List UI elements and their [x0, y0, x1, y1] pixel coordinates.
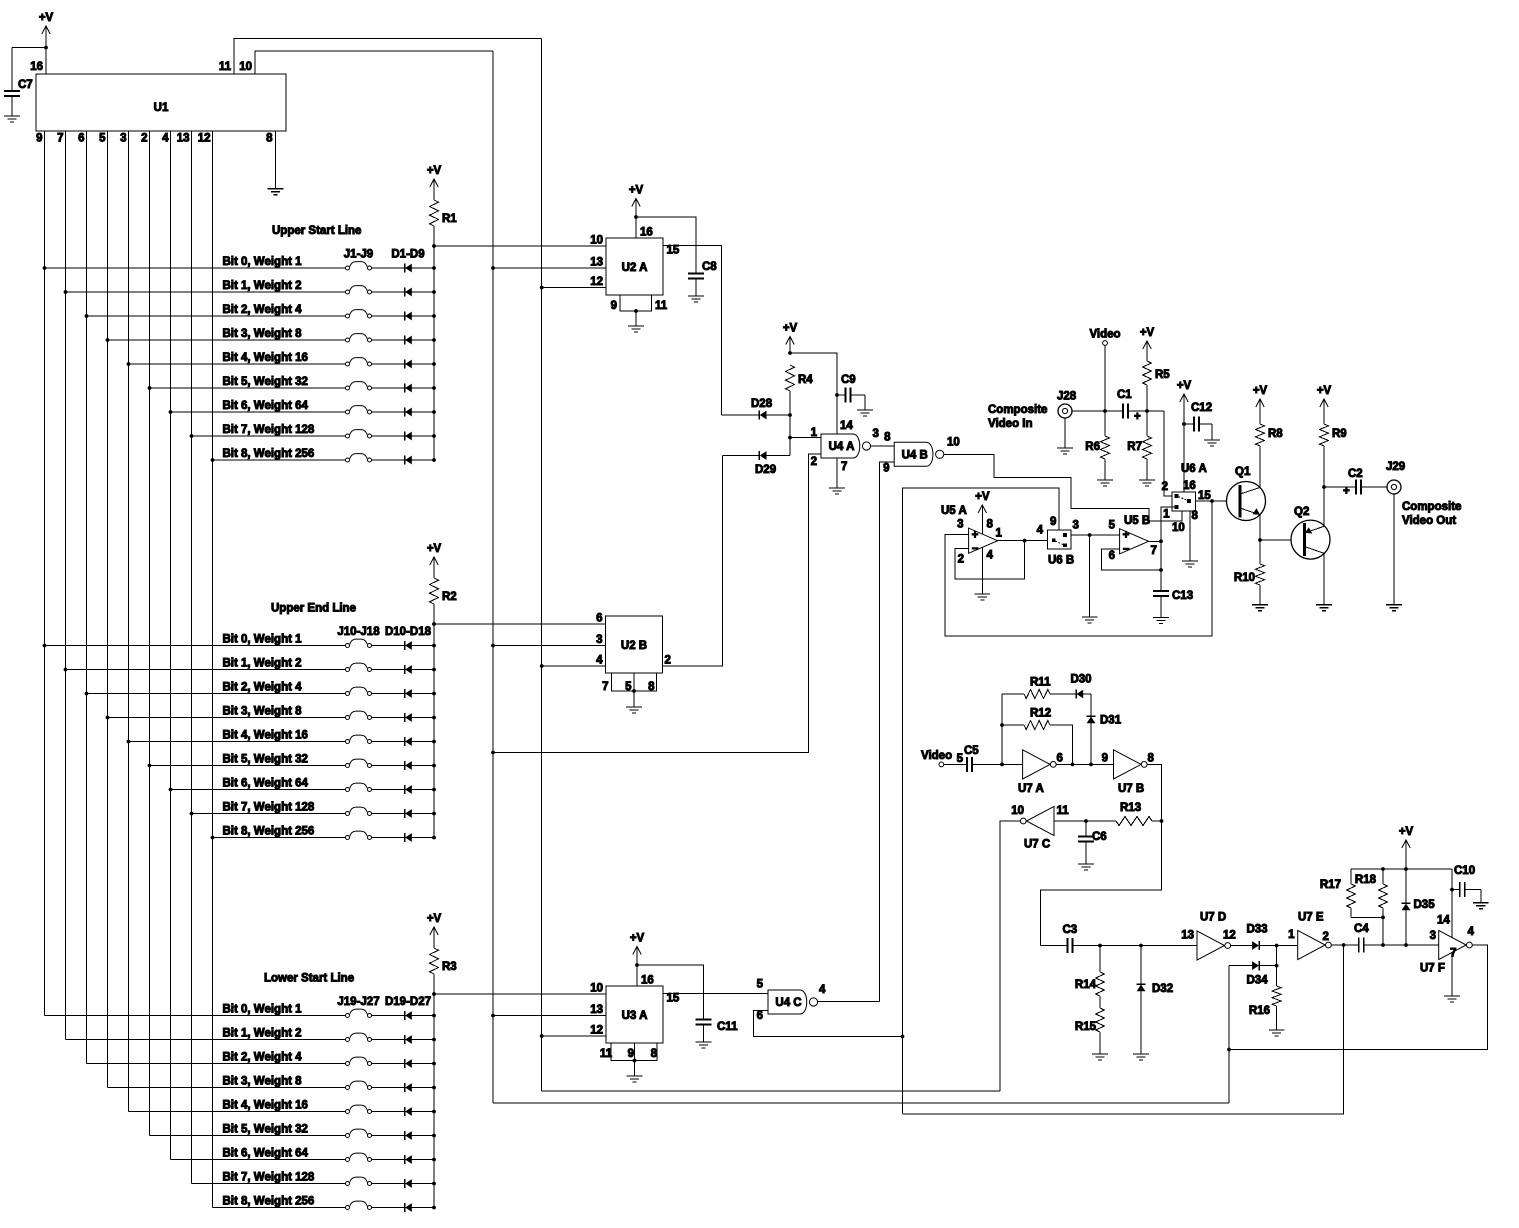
wire row bit 2 group 1: [87, 315, 346, 317]
svg-text:9: 9: [883, 463, 889, 475]
diode D17: [404, 809, 406, 818]
junction row bit 8 on bus (group 3): [432, 1206, 436, 1210]
ground U4A: [829, 488, 845, 494]
wire row bit 0 group 1: [45, 267, 346, 269]
svg-text:U3 A: U3 A: [622, 1010, 648, 1022]
svg-text:–: –: [972, 543, 979, 555]
wire bus B10 bottom run to D34 node: [493, 1102, 1229, 1104]
capacitor C13: [1153, 590, 1169, 592]
svg-text:Composite: Composite: [1402, 501, 1461, 513]
svg-text:+: +: [1343, 486, 1350, 498]
jumper J6: [350, 382, 368, 387]
junction row bit 0 on bus (group 3): [432, 1014, 436, 1018]
capacitor C9: [837, 394, 846, 396]
wire C1 to R5/R7 node: [1128, 410, 1164, 412]
wire U5A pin4 to ground: [981, 547, 983, 594]
wire R1 to junction: [433, 226, 435, 246]
svg-text:6: 6: [757, 1010, 763, 1022]
svg-text:D35: D35: [1414, 899, 1436, 911]
wire J29 ground: [1393, 494, 1395, 605]
wire U5A feedback loop: [955, 541, 1025, 579]
svg-text:Composite: Composite: [988, 404, 1047, 416]
svg-text:U5 A: U5 A: [941, 505, 967, 517]
diode D19: [404, 1011, 406, 1020]
jumper J15: [350, 759, 368, 764]
svg-text:7: 7: [841, 461, 847, 473]
ground C7: [4, 116, 20, 122]
diode D1: [404, 263, 406, 272]
wire C3 to U7D input: [1073, 945, 1198, 947]
jumper J17: [350, 807, 368, 812]
power +V R8: [1253, 385, 1268, 407]
svg-text:Video: Video: [921, 750, 952, 762]
bus R1 diode summing line: [433, 246, 435, 460]
wire row bit 4 group 1: [129, 363, 346, 365]
svg-text:12: 12: [590, 1025, 603, 1037]
svg-text:+V: +V: [1253, 385, 1268, 397]
diode D14: [404, 737, 406, 746]
power +V R9: [1317, 385, 1332, 407]
junction R1 bus top: [432, 244, 436, 248]
junction R9/Q2/C2: [1322, 485, 1326, 489]
junction pin 2 bus / upper end row: [148, 764, 152, 768]
junction pin15/feedback: [1210, 499, 1214, 503]
wire Q2 collector ground: [1323, 553, 1325, 604]
svg-text:Bit 7, Weight 128: Bit 7, Weight 128: [223, 1172, 315, 1184]
junction bus B11 / U2B pin4: [540, 664, 544, 668]
wire row bit 3 group 2: [108, 717, 346, 719]
power +V for R3: [427, 913, 442, 935]
svg-text:Bit 6, Weight 64: Bit 6, Weight 64: [223, 778, 309, 790]
wire row bit 1 group 1: [66, 291, 346, 293]
diode D30: [1075, 689, 1077, 698]
wire D34 to R16 node: [1259, 965, 1276, 967]
diode D31: [1086, 715, 1095, 717]
junction U7E output / bottom run: [1342, 943, 1346, 947]
jumper J9: [350, 454, 368, 459]
power +V C12: [1177, 380, 1192, 402]
ground R16: [1269, 1030, 1285, 1036]
NAND gate U4A: [821, 434, 860, 458]
wire bus from U1 pin 9: [44, 131, 46, 1016]
svg-text:10: 10: [1172, 522, 1185, 534]
wire row bit 5 group 1: [150, 387, 346, 389]
ground J29: [1386, 605, 1402, 611]
capacitor C4: [1358, 938, 1360, 953]
svg-text:U2 B: U2 B: [621, 640, 647, 652]
ground U6A pin 8: [1182, 561, 1198, 567]
svg-text:R12: R12: [1030, 708, 1051, 720]
svg-text:14: 14: [840, 420, 853, 432]
svg-text:+V: +V: [427, 543, 442, 555]
junction +V / C12: [1182, 422, 1186, 426]
svg-text:Bit 5, Weight 32: Bit 5, Weight 32: [223, 1124, 308, 1136]
svg-text:U7 B: U7 B: [1118, 783, 1144, 795]
svg-text:2: 2: [665, 655, 671, 667]
svg-text:1: 1: [811, 427, 818, 439]
svg-text:+V: +V: [629, 185, 644, 197]
svg-text:U6 A: U6 A: [1181, 463, 1207, 475]
svg-text:3: 3: [596, 634, 602, 646]
svg-text:9: 9: [36, 133, 42, 145]
resistor R9: [1320, 424, 1329, 446]
jumper J12: [350, 687, 368, 692]
wire U1 pin 8 to ground: [275, 131, 277, 189]
wire R6 ground: [1104, 459, 1106, 480]
svg-text:Bit 0, Weight 1: Bit 0, Weight 1: [223, 256, 303, 268]
svg-text:U4 A: U4 A: [829, 441, 855, 453]
svg-text:J1-J9: J1-J9: [344, 249, 373, 261]
svg-text:9: 9: [611, 300, 617, 312]
resistor R6: [1104, 411, 1106, 436]
svg-text:J28: J28: [1057, 391, 1077, 403]
wire bus from U1 pin 7: [65, 131, 67, 1040]
svg-text:2: 2: [811, 456, 817, 468]
NAND gate U4C: [768, 990, 807, 1014]
junction pin 5 bus / upper end row: [106, 716, 110, 720]
svg-text:Bit 0, Weight 1: Bit 0, Weight 1: [223, 634, 303, 646]
resistor R13: [1152, 820, 1162, 822]
svg-text:7: 7: [1450, 948, 1456, 960]
svg-text:7: 7: [57, 133, 63, 145]
diode D9: [404, 455, 406, 464]
junction pin 7 bus / upper end row: [64, 668, 68, 672]
ground J28: [1057, 448, 1073, 454]
wire C2 to J29: [1361, 486, 1387, 488]
inverter U7E: [1298, 930, 1326, 959]
svg-text:Bit 2, Weight 4: Bit 2, Weight 4: [223, 304, 303, 316]
wire U7F pin 7 ground: [1451, 952, 1453, 996]
wire U3A pin 13 from bus B10: [493, 1015, 606, 1017]
wire row bit 3 group 3: [108, 1087, 346, 1089]
svg-text:Bit 7, Weight 128: Bit 7, Weight 128: [223, 802, 315, 814]
svg-text:D19-D27: D19-D27: [385, 996, 431, 1008]
ground C12: [1204, 440, 1220, 446]
wire row bit 6 group 1: [171, 411, 346, 413]
svg-text:R13: R13: [1120, 802, 1141, 814]
junction U5A output/feedback: [1023, 539, 1027, 543]
svg-text:C6: C6: [1092, 831, 1107, 843]
svg-text:Bit 4, Weight 16: Bit 4, Weight 16: [223, 352, 308, 364]
diode D25: [404, 1155, 406, 1164]
junction C6: [1084, 819, 1088, 823]
wire U4B output 10 to U6A pin 10: [944, 454, 1182, 521]
junction C1/R5/R7: [1145, 409, 1149, 413]
jumper J21: [350, 1057, 368, 1062]
svg-text:15: 15: [667, 993, 680, 1005]
inverter U7D: [1197, 931, 1225, 960]
svg-text:11: 11: [600, 1048, 613, 1060]
junction R12/output: [1071, 763, 1075, 767]
diode D4: [404, 335, 406, 344]
jumper J18: [350, 831, 368, 836]
U3A pin 16 wire to +V: [636, 948, 638, 987]
jumper J26: [350, 1177, 368, 1182]
wire U6A pin 15 to Q1 base: [1196, 500, 1227, 502]
wire bus from U1 pin 6: [86, 131, 88, 1064]
jumper J3: [350, 310, 368, 315]
jumper J7: [350, 406, 368, 411]
svg-text:10: 10: [947, 437, 960, 449]
svg-text:Bit 1, Weight 2: Bit 1, Weight 2: [223, 280, 302, 292]
junction Q1 emitter node: [1258, 538, 1262, 542]
junction R4 top / C9 branch: [788, 351, 792, 355]
ground C6: [1078, 864, 1094, 870]
wire +V node to C8: [636, 217, 696, 274]
wire row bit 8 group 1: [213, 459, 346, 461]
wire U4A pin 1: [790, 437, 821, 439]
svg-text:C1: C1: [1117, 389, 1132, 401]
capacitor C8: [688, 273, 704, 275]
junction pin 9 bus / upper end row: [43, 644, 47, 648]
wire row bit 6 group 2: [171, 789, 346, 791]
wire input node up to R11/R12: [1001, 694, 1003, 764]
ground R10: [1252, 605, 1268, 611]
svg-text:Upper End Line: Upper End Line: [271, 603, 356, 615]
junction row bit 8 on bus (group 1): [432, 458, 436, 462]
svg-text:12: 12: [198, 133, 211, 145]
svg-text:J10-J18: J10-J18: [337, 626, 380, 638]
svg-text:R16: R16: [1249, 1005, 1270, 1017]
diode D15: [404, 761, 406, 770]
diode D23: [404, 1107, 406, 1116]
power +V R4: [783, 323, 798, 345]
svg-text:R1: R1: [442, 213, 457, 225]
wire row bit 7 group 2: [192, 813, 346, 815]
power +V R5: [1140, 327, 1155, 349]
svg-text:–: –: [1123, 543, 1130, 555]
svg-text:Bit 7, Weight 128: Bit 7, Weight 128: [223, 424, 315, 436]
junction pin 4 bus / upper end row: [169, 788, 173, 792]
svg-text:J19-J27: J19-J27: [337, 996, 379, 1008]
svg-text:+: +: [1134, 411, 1141, 423]
capacitor C6: [1085, 821, 1087, 837]
svg-text:C12: C12: [1191, 402, 1212, 414]
diode D27: [404, 1203, 406, 1212]
U3A pin 15 wire to U4C pin 5: [663, 992, 768, 994]
svg-text:R18: R18: [1355, 874, 1377, 886]
junction U5B output node: [1159, 539, 1163, 543]
wire C5 to U7A input: [972, 763, 1023, 765]
junction D35 tap: [1404, 943, 1408, 947]
junction row bit 1 on bus (group 2): [432, 668, 436, 672]
svg-text:Bit 5, Weight 32: Bit 5, Weight 32: [223, 376, 308, 388]
wire bus B11 bottom run to U7C output: [542, 1090, 1000, 1092]
ground U2A: [628, 326, 644, 332]
wire U4A output to U4B pin 8: [871, 445, 895, 447]
svg-text:+V: +V: [427, 165, 442, 177]
U2A pin 16 wire to +V: [635, 200, 637, 239]
wire R13 to C6 node: [1086, 820, 1116, 822]
junction row bit 8 on bus (group 2): [432, 836, 436, 840]
svg-text:C4: C4: [1354, 923, 1369, 935]
wire R15 ground: [1099, 1032, 1101, 1054]
wire R2 node to U2B pin 6: [434, 623, 606, 625]
junction pin 5 bus / upper start row: [106, 338, 110, 342]
junction bus B11 / U2A pin12: [540, 286, 544, 290]
junction feedback/C13: [1159, 568, 1163, 572]
junction R2 bus top: [432, 622, 436, 626]
wire row bit 4 group 2: [129, 741, 346, 743]
diode D28: [722, 414, 760, 416]
junction pin 9 bus / upper start row: [43, 266, 47, 270]
resistor R3: [430, 948, 439, 974]
junction row bit 4 on bus (group 3): [432, 1110, 436, 1114]
svg-text:16: 16: [1183, 480, 1196, 492]
svg-text:+V: +V: [1177, 380, 1192, 392]
diode D8: [404, 431, 406, 440]
wire D33 to U7E input: [1259, 945, 1297, 947]
diode D18: [404, 833, 406, 842]
analog switch U6B: [1048, 530, 1072, 549]
resistor R14: [1099, 946, 1101, 973]
svg-text:10: 10: [590, 235, 603, 247]
svg-text:C3: C3: [1063, 924, 1078, 936]
svg-text:C10: C10: [1454, 865, 1475, 877]
svg-text:D28: D28: [751, 398, 773, 410]
power +V D35: [1399, 826, 1414, 848]
wire U1 pin 10 to bus B10: [255, 51, 493, 74]
wire U4C output to U4B pin 9 riser: [818, 1001, 880, 1003]
junction row bit 6 on bus (group 1): [432, 410, 436, 414]
jumper J22: [350, 1081, 368, 1086]
svg-text:Bit 6, Weight 64: Bit 6, Weight 64: [223, 1148, 309, 1160]
jumper J5: [350, 358, 368, 363]
svg-text:3: 3: [1073, 520, 1079, 532]
junction row bit 7 on bus (group 2): [432, 812, 436, 816]
wire U1 pin 11 to bus B11: [234, 39, 542, 75]
junction pin 3 bus / upper end row: [127, 740, 131, 744]
ground C10: [1473, 903, 1489, 909]
wire +V to D35: [1405, 869, 1407, 903]
jumper J27: [350, 1201, 368, 1206]
junction pin 4 bus / upper start row: [169, 410, 173, 414]
resistor R8: [1256, 424, 1265, 446]
ground R6: [1097, 480, 1113, 486]
wire +V node to C11: [637, 965, 704, 1020]
resistor R12: [1002, 724, 1024, 726]
svg-text:R9: R9: [1332, 428, 1347, 440]
diode D11: [404, 665, 406, 674]
resistor R5: [1143, 361, 1152, 385]
resistors R17 R18 parallel: [1350, 908, 1352, 917]
inverter U7A: [1023, 750, 1051, 779]
svg-text:R17: R17: [1320, 879, 1341, 891]
U2A pin 15 wire to D28: [663, 246, 722, 416]
junction row bit 3 on bus (group 2): [432, 716, 436, 720]
junction pin 7 bus / upper start row: [64, 290, 68, 294]
svg-text:U5 B: U5 B: [1124, 515, 1150, 527]
svg-text:1: 1: [1163, 509, 1170, 521]
power +V for R2: [427, 543, 442, 565]
junction row bit 2 on bus (group 3): [432, 1062, 436, 1066]
svg-text:8: 8: [648, 681, 655, 693]
jumper J1: [350, 262, 368, 267]
junction C9 tap on pin14 wire: [835, 393, 839, 397]
power +V U5A: [975, 491, 990, 513]
bus R2 diode summing line: [433, 624, 435, 838]
svg-text:11: 11: [219, 61, 232, 73]
junction row bit 1 on bus (group 1): [432, 290, 436, 294]
svg-text:+V: +V: [427, 913, 442, 925]
wire R16: [1276, 946, 1278, 987]
ground C11: [696, 1042, 712, 1048]
wire row bit 7 group 3: [192, 1183, 346, 1185]
svg-text:C5: C5: [964, 745, 979, 757]
junction R13 / U7B output: [1160, 819, 1164, 823]
svg-text:4: 4: [1468, 926, 1475, 938]
wire U6A pin 8 ground: [1189, 511, 1191, 561]
wire ground branch: [1089, 535, 1091, 617]
svg-text:3: 3: [120, 133, 126, 145]
resistor R16: [1272, 986, 1281, 1006]
svg-text:5: 5: [957, 753, 964, 765]
svg-text:+V: +V: [783, 323, 798, 335]
wire row bit 3 group 1: [108, 339, 346, 341]
svg-text:12: 12: [1223, 930, 1236, 942]
wire to C2: [1324, 486, 1356, 488]
wire U7E output down-run to U6B-9 net: [903, 945, 1344, 1114]
jumper J16: [350, 783, 368, 788]
svg-text:5: 5: [99, 133, 106, 145]
wire D34 line: [1229, 965, 1252, 967]
resistor R2: [430, 578, 439, 604]
inverter U7B: [1114, 750, 1142, 779]
bus B10 vertical (U1 pin 10 net): [492, 51, 494, 1103]
wire R17R18 bottom to C4 line: [1382, 917, 1384, 945]
junction row bit 3 on bus (group 1): [432, 338, 436, 342]
junction D34 riser / U7F feedback: [1227, 1048, 1231, 1052]
capacitor C12: [1184, 423, 1194, 425]
junction row bit 5 on bus (group 1): [432, 386, 436, 390]
svg-text:R14: R14: [1075, 979, 1097, 991]
junction bus B11 / U3A pin12: [540, 1034, 544, 1038]
svg-text:Q1: Q1: [1235, 466, 1251, 478]
junction R12 branch: [1000, 723, 1004, 727]
junction C10 tap: [1450, 888, 1454, 892]
svg-text:U6 B: U6 B: [1048, 555, 1074, 567]
op-amp U5B: [1120, 529, 1149, 554]
diode D6: [404, 383, 406, 392]
wire row bit 5 group 3: [150, 1135, 346, 1137]
svg-text:11: 11: [1057, 805, 1070, 817]
junction row bit 4 on bus (group 1): [432, 362, 436, 366]
svg-text:3: 3: [873, 428, 879, 440]
ground U7F: [1444, 996, 1460, 1002]
svg-text:U7 A: U7 A: [1018, 783, 1044, 795]
svg-text:Bit 3, Weight 8: Bit 3, Weight 8: [223, 328, 303, 340]
junction row bit 0 on bus (group 1): [432, 266, 436, 270]
power +V for U1: [39, 12, 54, 34]
jumper J4: [350, 334, 368, 339]
svg-text:Bit 6, Weight 64: Bit 6, Weight 64: [223, 400, 309, 412]
svg-text:4: 4: [596, 655, 603, 667]
svg-text:2: 2: [1162, 481, 1168, 493]
svg-text:6: 6: [1057, 753, 1063, 765]
svg-text:+: +: [1123, 530, 1130, 542]
svg-text:R15: R15: [1075, 1021, 1097, 1033]
diode D5: [404, 359, 406, 368]
wire U7F output feedback to D34: [1229, 945, 1488, 1050]
jumper J23: [350, 1105, 368, 1110]
IC U1: [36, 74, 286, 131]
svg-text:Bit 3, Weight 8: Bit 3, Weight 8: [223, 706, 303, 718]
svg-text:5: 5: [1109, 520, 1116, 532]
diode D16: [404, 785, 406, 794]
svg-text:8: 8: [266, 133, 273, 145]
svg-text:13: 13: [1181, 930, 1194, 942]
junction pin 13 bus / upper end row: [190, 812, 194, 816]
